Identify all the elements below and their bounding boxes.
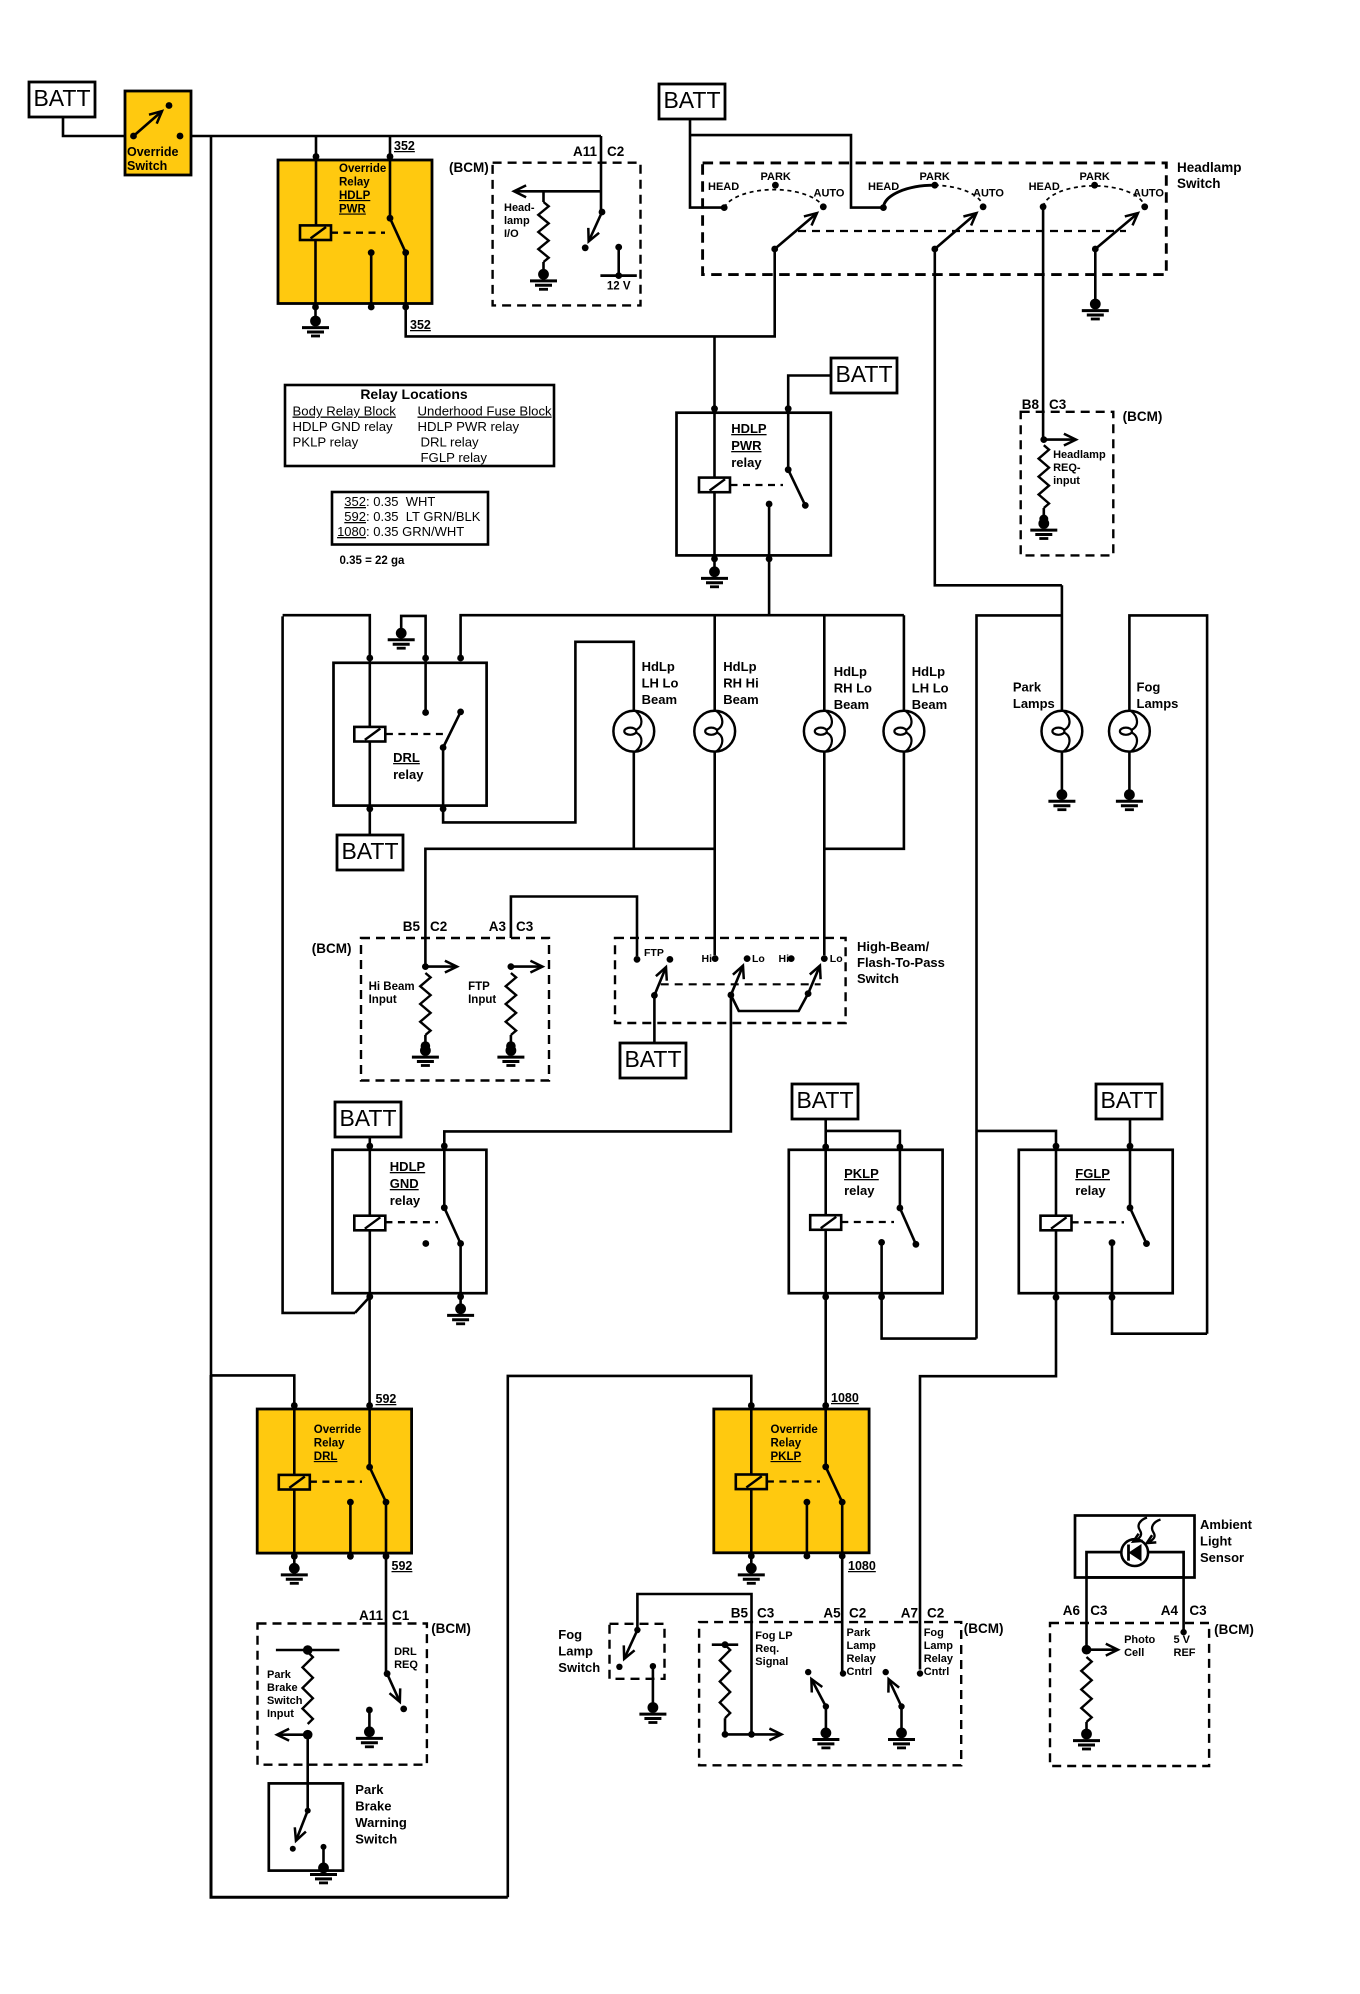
ground: Hi Beam input <box>412 1041 439 1065</box>
wire park lamp node to PKLP riser <box>977 615 1062 1338</box>
svg-text:C3: C3 <box>757 1606 775 1621</box>
power feed BATT box 3 <box>831 358 897 393</box>
svg-text:Override: Override <box>314 1424 361 1436</box>
override relay PKLP middle pin <box>804 1499 811 1556</box>
svg-text:Cntrl: Cntrl <box>924 1666 950 1678</box>
lamp HdLp LH Lo Beam right <box>884 711 925 752</box>
label Fog Lamp Switch <box>558 1627 600 1675</box>
label HdLp RH Lo Beam <box>834 664 872 712</box>
DRL relay coil <box>354 659 385 809</box>
wire park brake input to warning switch <box>306 1735 309 1811</box>
svg-text:Lo: Lo <box>830 953 843 965</box>
wire FTP input to switch <box>511 897 637 957</box>
PKLP relay dashed link <box>841 1221 894 1223</box>
label HdLp LH Lo Beam 2 <box>912 664 949 712</box>
BCM connector labels B8 C3 <box>1022 397 1067 412</box>
svg-text:C1: C1 <box>392 1608 410 1623</box>
label (BCM) bottom middle <box>964 1621 1004 1636</box>
Override Switch contact dots and arm <box>130 102 183 139</box>
svg-text:Headlamp: Headlamp <box>1053 449 1106 461</box>
power feed BATT box 7 (HDLP GND) <box>335 1102 401 1150</box>
ground: park brake warning switch <box>310 1844 337 1883</box>
PKLP relay label <box>844 1166 879 1198</box>
ground: photo cell <box>1073 1729 1100 1749</box>
resistor: fog LP req signal <box>712 1641 738 1734</box>
resistor: photo cell <box>1081 1657 1091 1729</box>
BCM connector labels A7 C2 <box>901 1606 945 1621</box>
svg-text:Fog LP: Fog LP <box>755 1630 792 1642</box>
svg-text:Head-: Head- <box>504 202 535 214</box>
FGLP relay output pin <box>1109 1239 1116 1297</box>
contact Lo 1 <box>744 953 765 965</box>
headlamp switch contacts 3 <box>1040 182 1148 210</box>
HDLP PWR relay box <box>677 413 831 556</box>
HDLP GND relay switch <box>441 1146 464 1297</box>
label Head- lamp I/O <box>504 202 535 240</box>
BCM connector labels A3 C3 <box>489 919 534 934</box>
svg-text:Override: Override <box>771 1424 818 1436</box>
BCM connector labels A6 C3 <box>1063 1603 1108 1618</box>
svg-text:A5: A5 <box>823 1606 841 1621</box>
svg-text:5 V: 5 V <box>1174 1634 1191 1646</box>
svg-text:Lamp: Lamp <box>558 1644 593 1659</box>
power feed BATT box 6 (PKLP) <box>792 1084 858 1119</box>
FGLP relay box <box>1019 1150 1173 1293</box>
power feed BATT box 4 (DRL coil) <box>337 809 403 870</box>
svg-text:BATT: BATT <box>835 361 892 387</box>
DRL relay label <box>393 750 424 782</box>
svg-text:Relay: Relay <box>771 1438 802 1450</box>
svg-text:Fog: Fog <box>1137 680 1161 695</box>
override relay PKLP coil <box>736 1406 767 1556</box>
headlamp switch position labels 3 <box>1029 171 1165 200</box>
switch arm FTP <box>651 967 667 999</box>
label HdLp LH Lo Beam 1 <box>642 659 679 707</box>
wire lamp2 bottom to Hi contact <box>713 752 716 956</box>
svg-text:HDLP: HDLP <box>731 421 767 436</box>
svg-text:Lamp: Lamp <box>847 1640 877 1652</box>
svg-text:Flash-To-Pass: Flash-To-Pass <box>857 955 945 970</box>
FGLP relay dashed link <box>1072 1221 1124 1223</box>
svg-text:Lamp: Lamp <box>924 1640 954 1652</box>
BCM box (DRL REQ / park brake input) <box>258 1624 427 1765</box>
svg-text:Hi: Hi <box>702 953 713 965</box>
svg-text:12 V: 12 V <box>607 281 631 293</box>
wire HEAD 3 to BCM B8-C3 <box>1042 207 1045 440</box>
BCM box (fog/park lamp control) <box>699 1622 961 1765</box>
ground: park lamp relay driver <box>812 1707 839 1748</box>
arrow: photo cell <box>1087 1644 1118 1656</box>
FGLP relay label <box>1075 1166 1110 1198</box>
high-beam switch mechanical dashed link <box>661 983 821 985</box>
svg-text:592: 592 <box>344 509 366 524</box>
svg-text:A7: A7 <box>901 1606 918 1621</box>
label (BCM) bottom right <box>1214 1622 1254 1637</box>
svg-text:relay: relay <box>393 767 424 782</box>
wire lamp feed rail west (to DRL coil) <box>283 615 370 659</box>
svg-text:(BCM): (BCM) <box>312 941 352 956</box>
headlamp switch arm 1 <box>771 213 817 252</box>
park brake switch input stub <box>276 1645 340 1655</box>
wire lamp4 bottom joins lamp3 <box>824 752 904 849</box>
BCM box (Headlamp REQ input) <box>1021 412 1114 556</box>
svg-text:LH Lo: LH Lo <box>912 681 949 696</box>
svg-text:(BCM): (BCM) <box>1214 1622 1254 1637</box>
wire sensor to BCM A6-C3 <box>1085 1577 1088 1650</box>
svg-text:PKLP: PKLP <box>844 1166 879 1181</box>
DRL relay dashed link <box>386 733 445 735</box>
wire rail drop to lamp 2 <box>713 615 716 711</box>
svg-text:Photo: Photo <box>1124 1634 1155 1646</box>
svg-text:C3: C3 <box>1189 1603 1207 1618</box>
svg-text:AUTO: AUTO <box>814 188 845 200</box>
ground: HDLP GND relay switch <box>447 1297 474 1324</box>
label Park Brake Warning Switch <box>355 1782 407 1847</box>
svg-text:Input: Input <box>369 994 397 1006</box>
svg-text:HDLP PWR relay: HDLP PWR relay <box>418 419 520 434</box>
BCM box (Hi Beam / FTP inputs) <box>361 938 549 1081</box>
svg-text:Relay Locations: Relay Locations <box>360 386 468 402</box>
PKLP relay box <box>789 1150 943 1293</box>
lamp Park Lamps <box>1042 711 1083 752</box>
svg-text:Relay: Relay <box>339 177 370 189</box>
svg-text:Cntrl: Cntrl <box>847 1666 873 1678</box>
override relay DRL top pin dots <box>291 1402 373 1409</box>
label High-Beam Flash-To-Pass Switch <box>857 939 945 986</box>
svg-text:Underhood Fuse Block: Underhood Fuse Block <box>418 404 553 419</box>
svg-text:C3: C3 <box>1049 397 1067 412</box>
svg-text:Ambient: Ambient <box>1200 1517 1253 1532</box>
override relay DRL label <box>314 1424 361 1463</box>
ground: DRL REQ contact stub <box>356 1707 383 1747</box>
switch: fog lamp relay driver <box>883 1669 905 1710</box>
FGLP relay bottom pin dots <box>1053 1294 1116 1301</box>
svg-text:FTP: FTP <box>468 981 490 993</box>
svg-text:Relay: Relay <box>924 1653 954 1665</box>
svg-text:HdLp: HdLp <box>912 664 945 679</box>
label HdLp RH Hi Beam <box>723 659 758 707</box>
PKLP relay top pin dots <box>822 1144 903 1151</box>
wire headlamp switch arm 2 to park lamps <box>935 249 1062 585</box>
12 V supply symbol <box>600 244 636 293</box>
wire rail drop to lamp 3 <box>823 615 826 711</box>
svg-text:352: 352 <box>410 318 431 332</box>
switch: DRL REQ driver <box>384 1670 407 1712</box>
high-beam switch dashed box <box>615 938 846 1023</box>
light arrows into photodiode <box>1133 1518 1160 1544</box>
wire 1080 to BCM A5-C2 <box>841 1556 844 1674</box>
BCM connector labels B5 C3 (fog) <box>731 1606 775 1621</box>
label Headlamp REQ- input <box>1053 449 1106 487</box>
contact Hi 1 <box>702 953 719 965</box>
contact Hi 2 (open) <box>779 953 795 965</box>
ground: fog lamp relay driver <box>888 1707 915 1748</box>
HDLP PWR relay dashed link <box>731 484 784 486</box>
lamp Fog Lamps <box>1109 711 1150 752</box>
override relay DRL coil <box>279 1406 310 1556</box>
svg-text:Switch: Switch <box>267 1695 303 1707</box>
headlamp switch position labels 2 <box>868 171 1004 200</box>
headlamp switch contacts 2 <box>880 182 986 211</box>
svg-text:Hi: Hi <box>779 953 790 965</box>
wire 352: Override Switch to BCM A11-C2 and relay <box>190 135 601 138</box>
svg-text:RH Hi: RH Hi <box>723 676 758 691</box>
svg-text:Input: Input <box>468 994 496 1006</box>
wire PKLP output to park lamp riser <box>882 1297 977 1339</box>
svg-text:Warning: Warning <box>355 1815 407 1830</box>
headlamp switch arm 3 <box>1092 213 1138 252</box>
big override loop outline <box>211 1375 508 1897</box>
svg-text:Signal: Signal <box>755 1656 788 1668</box>
svg-text:(BCM): (BCM) <box>431 1621 471 1636</box>
HDLP GND relay box <box>333 1150 487 1293</box>
svg-text:Lo: Lo <box>752 953 765 965</box>
override relay HDLP PWR middle pin <box>368 249 375 307</box>
FGLP relay coil <box>1041 1147 1072 1297</box>
svg-text:Switch: Switch <box>1177 176 1221 191</box>
svg-text:B8: B8 <box>1022 397 1040 412</box>
HDLP GND relay dashed link <box>385 1221 438 1223</box>
ground: fog lamp switch stub <box>639 1663 666 1723</box>
svg-text:PWR: PWR <box>339 204 367 216</box>
svg-text:Park: Park <box>355 1782 384 1797</box>
lamp HdLp RH Hi Beam <box>694 711 735 752</box>
label Fog Lamps <box>1137 680 1179 712</box>
svg-text:Cell: Cell <box>1124 1647 1144 1659</box>
headlamp switch contacts 1 <box>721 182 827 211</box>
switch: fog lamp <box>616 1627 640 1670</box>
svg-text:Beam: Beam <box>912 697 947 712</box>
svg-text:relay: relay <box>1075 1183 1106 1198</box>
wire code box <box>332 492 488 545</box>
svg-text:A4: A4 <box>1161 1603 1179 1618</box>
wire drop to Override Relay HDLP PWR switch <box>387 136 394 160</box>
circuit label 1080 (bottom) <box>848 1559 876 1573</box>
wire lamp1 bottom to Hi-Beam input rail <box>632 752 635 849</box>
svg-text:LH Lo: LH Lo <box>642 676 679 691</box>
wire left rail of lamp loop (592 side) <box>283 616 355 1313</box>
circuit label 352 (top) <box>394 139 415 153</box>
svg-text:DRL: DRL <box>394 1646 417 1658</box>
node: headlamp REQ input pin <box>1040 436 1047 443</box>
Override Switch (yellow box) <box>125 91 191 175</box>
svg-text:HdLp: HdLp <box>834 664 867 679</box>
node A5 park lamp relay control <box>840 1670 846 1676</box>
svg-text:Beam: Beam <box>642 692 677 707</box>
override relay DRL (yellow box) <box>257 1409 411 1553</box>
svg-text:Req.: Req. <box>755 1643 779 1655</box>
svg-text:C2: C2 <box>927 1606 944 1621</box>
BCM connector labels A11 C2 <box>573 144 624 159</box>
ground: DRL relay middle pin <box>388 616 426 659</box>
wire BATT2 to headlamp switch HEAD contacts <box>690 119 882 208</box>
wire DRL relay output to lamp 1 <box>443 642 634 823</box>
HDLP GND relay label <box>390 1159 426 1208</box>
svg-text:REF: REF <box>1174 1647 1196 1659</box>
override relay HDLP PWR coil <box>300 160 331 307</box>
resistor: Hi Beam input <box>420 973 430 1044</box>
svg-text:PARK: PARK <box>1080 171 1110 183</box>
wire A11-C2 into BCM <box>600 136 603 212</box>
svg-text:Fog: Fog <box>924 1627 944 1639</box>
wire 592 to BCM A11-C1 <box>385 1556 388 1674</box>
wire B5-C3 pin into BCM <box>750 1624 753 1734</box>
arrow: park brake input <box>277 1729 308 1741</box>
svg-text:HEAD: HEAD <box>708 181 739 193</box>
wire code rows <box>337 494 481 539</box>
svg-text:relay: relay <box>731 455 762 470</box>
wire override riser to PKLP override coil <box>508 1376 752 1897</box>
wire override rail to DRL override coil <box>211 1375 294 1406</box>
circuit label 592 (bottom) <box>392 1559 413 1573</box>
ground: HDLP PWR relay coil <box>701 559 728 587</box>
svg-text:BATT: BATT <box>796 1087 853 1113</box>
svg-text:AUTO: AUTO <box>973 188 1004 200</box>
label 0.35 = 22 ga <box>340 555 405 567</box>
svg-text:Beam: Beam <box>723 692 758 707</box>
circuit label 592 (top) <box>376 1392 397 1406</box>
HDLP PWR relay coil <box>699 336 730 559</box>
svg-text:Switch: Switch <box>127 159 167 173</box>
resistor: park brake switch input <box>303 1652 313 1724</box>
contact FTP <box>634 947 674 963</box>
svg-text:Fog: Fog <box>558 1627 582 1642</box>
HDLP PWR relay label <box>731 421 767 470</box>
Relay Locations column headers <box>293 404 553 419</box>
svg-text:Relay: Relay <box>314 1438 345 1450</box>
HDLP GND relay bottom pin dots <box>366 1293 464 1300</box>
override relay PKLP top pin dots <box>748 1402 829 1409</box>
wire rail drop to lamp 4 <box>903 615 906 711</box>
svg-text:Headlamp: Headlamp <box>1177 160 1242 175</box>
ground: headlamp switch arm 3 <box>1082 249 1109 319</box>
svg-text:: 0.35 WHT: : 0.35 WHT <box>366 494 435 509</box>
label (BCM) right <box>1123 409 1163 424</box>
power feed BATT box 8 (FGLP) <box>1096 1084 1162 1119</box>
HDLP PWR relay output pin <box>766 501 773 559</box>
label Ambient Light Sensor <box>1200 1517 1253 1565</box>
svg-text:DRL relay: DRL relay <box>421 435 480 450</box>
svg-text:relay: relay <box>844 1183 875 1198</box>
ground: override relay DRL coil <box>281 1556 308 1583</box>
svg-text:HDLP: HDLP <box>390 1159 426 1174</box>
svg-text:Body Relay Block: Body Relay Block <box>293 404 397 419</box>
label 5 V REF <box>1174 1634 1196 1659</box>
HDLP GND relay middle contact (open) <box>422 1240 429 1247</box>
svg-text:C3: C3 <box>516 919 534 934</box>
circuit label 1080 (top) <box>831 1391 859 1405</box>
svg-text:PWR: PWR <box>731 438 762 453</box>
wire high-beam arms to HDLP GND relay <box>444 995 731 1146</box>
label (BCM) bottom left <box>431 1621 471 1636</box>
arrow: FTP input <box>511 961 543 973</box>
svg-text:PARK: PARK <box>761 171 791 183</box>
BCM box (Headlamp I/O) <box>493 163 641 306</box>
svg-text:Park: Park <box>1013 680 1042 695</box>
wire BATT6 to PKLP relay <box>826 1119 900 1147</box>
svg-text:GND: GND <box>390 1176 419 1191</box>
override relay PKLP bottom pin dots <box>748 1553 846 1560</box>
wire sensor to BCM A4-C3 <box>1182 1577 1185 1632</box>
svg-text:A11: A11 <box>573 144 598 159</box>
PKLP relay output pin <box>878 1239 885 1297</box>
ground: headlamp REQ input <box>1030 515 1057 539</box>
svg-text:Brake: Brake <box>355 1799 391 1814</box>
BCM connector labels A5 C2 <box>823 1606 866 1621</box>
ground: override relay HDLP PWR coil <box>302 307 329 336</box>
svg-text:(BCM): (BCM) <box>1123 409 1163 424</box>
ground: fog lamps <box>1116 752 1143 810</box>
ground: park lamps <box>1048 752 1075 810</box>
svg-text:lamp: lamp <box>504 215 530 227</box>
label Photo Cell <box>1124 1634 1155 1659</box>
headlamp switch arm 2 <box>931 213 976 252</box>
node: left override rail drop at x211 <box>210 136 213 1375</box>
wire FGLP output to fog lamp riser <box>1112 1297 1207 1333</box>
svg-text:Lamps: Lamps <box>1013 696 1055 711</box>
svg-text:: 0.35 LT GRN/BLK: : 0.35 LT GRN/BLK <box>366 509 481 524</box>
svg-text:AUTO: AUTO <box>1133 188 1164 200</box>
fog lamp switch dashed box <box>610 1624 665 1679</box>
node fog LP req signal <box>722 1731 755 1738</box>
Relay Locations box <box>285 385 554 466</box>
svg-text:(BCM): (BCM) <box>964 1621 1004 1636</box>
svg-text:RH Lo: RH Lo <box>834 681 872 696</box>
power feed BATT box 1 (top left) <box>29 82 95 117</box>
svg-text:BATT: BATT <box>624 1046 681 1072</box>
override relay DRL dashed link <box>310 1481 362 1483</box>
svg-text:Relay: Relay <box>847 1653 877 1665</box>
HDLP GND relay coil <box>354 1150 385 1297</box>
svg-text:B5: B5 <box>731 1606 749 1621</box>
svg-text:1080: 1080 <box>337 524 366 539</box>
wire HDLP PWR relay output to lamp rail <box>768 559 771 616</box>
DRL relay box <box>334 663 487 806</box>
headlamp switch arc 3 <box>1043 186 1145 207</box>
svg-text:PKLP: PKLP <box>771 1451 802 1463</box>
arrow: fog LP req signal <box>752 1729 782 1741</box>
svg-text:C3: C3 <box>1090 1603 1108 1618</box>
label Headlamp Switch <box>1177 160 1242 191</box>
wire 352 to HDLP PWR relay <box>406 307 774 336</box>
ground: headlamp I/O resistor <box>530 269 557 289</box>
label Park Lamp Relay Cntrl <box>847 1627 877 1678</box>
svg-text:BATT: BATT <box>339 1105 396 1131</box>
label FTP Input <box>468 981 496 1006</box>
wire high-beam arm bus <box>731 994 808 1011</box>
override relay HDLP PWR label <box>339 163 386 216</box>
wire lamp feed rail east <box>461 615 904 659</box>
node photo cell <box>1082 1645 1092 1655</box>
override relay DRL bottom pin dots <box>291 1553 390 1560</box>
svg-text:BATT: BATT <box>33 85 90 111</box>
svg-text:relay: relay <box>390 1193 421 1208</box>
resistor: FTP input <box>506 973 516 1044</box>
label (BCM) hi-beam <box>312 941 352 956</box>
label DRL REQ <box>394 1646 418 1671</box>
svg-text:DRL: DRL <box>314 1451 338 1463</box>
headlamp switch mechanical dashed link <box>798 230 1126 232</box>
svg-text:592: 592 <box>392 1559 413 1573</box>
switch: park brake warning <box>290 1808 311 1852</box>
svg-text:A3: A3 <box>489 919 507 934</box>
node park brake input <box>303 1730 313 1740</box>
PKLP relay coil <box>810 1147 841 1297</box>
PKLP relay switch <box>897 1147 920 1248</box>
FGLP relay switch <box>1127 1204 1150 1247</box>
svg-text:Override: Override <box>339 163 386 175</box>
svg-text:I/O: I/O <box>504 228 519 240</box>
